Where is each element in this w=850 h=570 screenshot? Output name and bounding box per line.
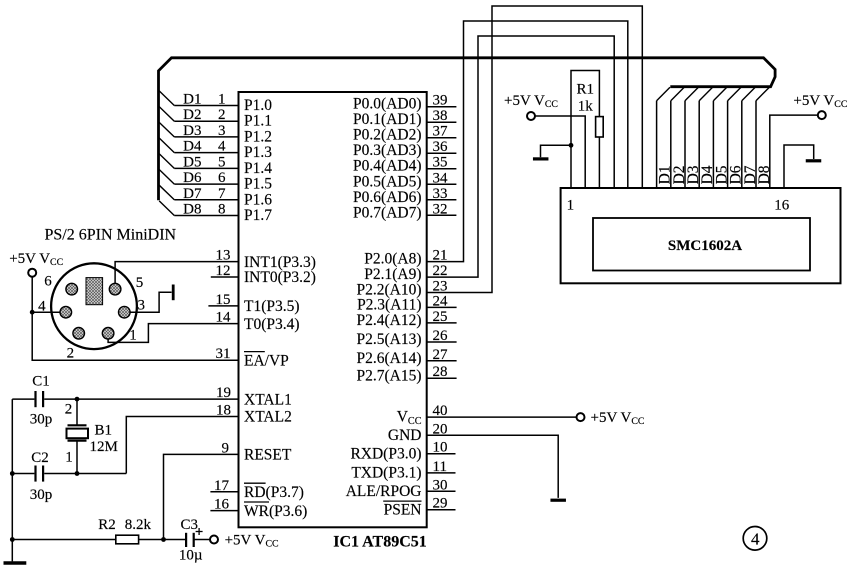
MiniDIN pin 3 contact xyxy=(119,306,131,318)
svg-text:C2: C2 xyxy=(31,450,49,466)
svg-text:P2.4(A12): P2.4(A12) xyxy=(356,312,421,329)
wire : LCD data line D6 xyxy=(727,101,729,188)
wire : bus tap diagonal for D2 xyxy=(159,107,174,122)
svg-text:11: 11 xyxy=(433,459,447,475)
svg-text:33: 33 xyxy=(433,186,448,202)
svg-text:C3: C3 xyxy=(181,517,199,533)
wire : IC pin 33 stub xyxy=(427,199,457,201)
shield terminal bar xyxy=(172,285,175,301)
svg-text:P2.3(A11): P2.3(A11) xyxy=(357,297,421,314)
svg-text:D8: D8 xyxy=(183,202,201,218)
crystal B1 symbol xyxy=(68,424,87,426)
wire : bus tap diagonal for D8 xyxy=(159,201,174,216)
svg-text:P0.0(AD0): P0.0(AD0) xyxy=(353,96,421,113)
wire : IC pin 37 stub xyxy=(427,137,457,139)
wire : LCD data line D2 xyxy=(670,101,672,188)
resistor R2 body xyxy=(116,535,139,544)
wire : bus tap diagonal for D5 xyxy=(159,154,174,169)
svg-text:C1: C1 xyxy=(32,374,50,390)
svg-text:P1.1: P1.1 xyxy=(244,113,272,130)
wire : bus tap diagonal for D1 xyxy=(159,91,174,106)
svg-text:P2.0(A8): P2.0(A8) xyxy=(364,251,421,268)
MiniDIN key slot rectangle xyxy=(86,278,103,305)
svg-text:TXD(P3.1): TXD(P3.1) xyxy=(351,465,421,482)
wire : XTAL2 jog to crystal bottom row xyxy=(126,417,238,474)
wire : IC pin 32 stub xyxy=(427,214,457,216)
resistor R1 body xyxy=(596,117,604,137)
wire : IC pin 38 stub xyxy=(427,121,457,123)
wire : net D6 to IC pin 6 xyxy=(174,183,238,185)
junction left rail / C2 row xyxy=(10,471,15,476)
wire : LCD pin 15 to +5V terminal xyxy=(770,115,818,188)
ground symbol at pin 20 xyxy=(550,499,566,502)
wire : +5V to LCD pin 2 xyxy=(535,116,586,188)
wire : net D1 to IC pin 1 xyxy=(174,105,238,107)
svg-text:XTAL2: XTAL2 xyxy=(244,409,292,426)
wire : tap to MiniDIN pin 4 xyxy=(32,311,60,313)
wire : net D7 to IC pin 7 xyxy=(174,199,238,201)
wire : RESET vertical to IC pin 9 xyxy=(164,454,239,539)
svg-text:30p: 30p xyxy=(30,412,53,428)
svg-text:1k: 1k xyxy=(578,99,594,115)
svg-text:5: 5 xyxy=(136,275,144,291)
LCD module SMC1602A outer box xyxy=(561,188,841,283)
svg-text:D3: D3 xyxy=(183,123,201,139)
svg-text:ALE/RPOG: ALE/RPOG xyxy=(346,483,422,500)
connector J1 : MiniDIN outer circle xyxy=(51,263,137,349)
wire : net D3 to IC pin 3 xyxy=(174,136,238,138)
wire : bus tap diagonal for D6 xyxy=(159,169,174,184)
ground symbol (LCD right) xyxy=(806,159,822,162)
wire : net D4 to IC pin 4 xyxy=(174,152,238,154)
svg-text:1: 1 xyxy=(65,450,73,466)
svg-text:P0.6(AD6): P0.6(AD6) xyxy=(353,189,421,206)
svg-text:RESET: RESET xyxy=(244,447,292,464)
wire : pin 40 to +5V terminal xyxy=(427,416,577,418)
wire : bus tap diagonal for LCD D8 xyxy=(756,87,769,101)
wire : R1 bottom to LCD pin 3 xyxy=(598,137,600,188)
wire : crystal bottom lead xyxy=(76,441,78,474)
power terminal +5V at pin 40 xyxy=(577,413,585,421)
svg-text:5: 5 xyxy=(218,154,226,170)
wire : bus tap diagonal for LCD D2 xyxy=(671,87,684,101)
junction at +5V rail / pin 4 xyxy=(30,310,35,315)
wire : left rail C1 row to IC pin 19 (XTAL1) xyxy=(12,398,34,400)
svg-text:30: 30 xyxy=(433,477,448,493)
wire : MiniDIN pin 3 (gnd) to shield stub xyxy=(124,292,171,312)
wire : bus tap diagonal for LCD D3 xyxy=(685,87,698,101)
wire : IC pin 24 stub xyxy=(427,306,457,308)
wire : +5V rail down to pin 31 row xyxy=(32,276,238,360)
LCD display window inner box xyxy=(593,218,810,271)
svg-text:D4: D4 xyxy=(183,139,202,155)
svg-text:P0.1(AD1): P0.1(AD1) xyxy=(353,111,421,128)
svg-text:P1.5: P1.5 xyxy=(244,176,272,193)
junction RESET / bottom row xyxy=(161,537,166,542)
wire : bus tap diagonal for D7 xyxy=(159,185,174,200)
ground stub bottom-left xyxy=(11,540,13,562)
wire : LCD data line D7 xyxy=(741,101,743,188)
svg-text:B1: B1 xyxy=(95,423,113,439)
svg-text:36: 36 xyxy=(433,139,449,155)
svg-text:R1: R1 xyxy=(576,82,594,98)
svg-text:P0.4(AD4): P0.4(AD4) xyxy=(353,158,421,175)
svg-text:P1.3: P1.3 xyxy=(244,144,272,161)
IC IC1 : AT89C51 microcontroller body xyxy=(239,92,427,527)
svg-text:P2.5(A13): P2.5(A13) xyxy=(356,331,421,348)
wire : pin 20 GND down to ground xyxy=(427,435,559,498)
wire : IC pin 17 stub xyxy=(210,491,238,493)
wire : LCD data line D5 xyxy=(712,101,714,188)
svg-text:4: 4 xyxy=(218,139,226,155)
wire : C2 row xyxy=(12,473,34,475)
wire : IC pin 11 stub xyxy=(427,472,456,474)
wire : C3 to +5V terminal xyxy=(194,539,211,541)
svg-text:3: 3 xyxy=(137,298,145,314)
power terminal +5V (LCD right) xyxy=(818,111,826,119)
ground symbol bottom-left xyxy=(4,561,27,565)
svg-text:6: 6 xyxy=(44,274,52,290)
svg-text:RXD(P3.0): RXD(P3.0) xyxy=(350,445,421,462)
wire : pin 22 P2.1 to LCD pin 4 (RS) xyxy=(427,36,615,277)
svg-text:T0(P3.4): T0(P3.4) xyxy=(244,316,300,333)
svg-text:35: 35 xyxy=(433,155,448,171)
svg-text:P1.6: P1.6 xyxy=(244,191,272,208)
svg-text:34: 34 xyxy=(433,170,449,186)
svg-text:D2: D2 xyxy=(183,107,201,123)
svg-text:P0.5(AD5): P0.5(AD5) xyxy=(353,173,421,190)
junction left rail / bottom row xyxy=(10,537,15,542)
capacitor C2 plates xyxy=(34,466,36,482)
junction crystal top / XTAL1 xyxy=(75,397,80,402)
svg-text:D7: D7 xyxy=(183,186,202,202)
wire : LCD data line D8 xyxy=(755,101,757,188)
wire : IC pin 25 stub xyxy=(427,322,457,324)
svg-text:WR(P3.6): WR(P3.6) xyxy=(244,503,307,520)
svg-text:12M: 12M xyxy=(90,439,118,455)
junction crystal bottom / C2 row xyxy=(75,471,80,476)
svg-text:P2.6(A14): P2.6(A14) xyxy=(356,350,421,367)
wire : MiniDIN pin 5 (clock) up to IC pin 13 xyxy=(115,262,238,290)
junction LCD pin1 / ground xyxy=(569,143,574,148)
svg-text:PS/2 6PIN MiniDIN: PS/2 6PIN MiniDIN xyxy=(45,226,177,243)
wire : thick data bus (keyboard D1-D8 to LCD) xyxy=(159,58,776,201)
svg-text:EA/VP: EA/VP xyxy=(244,352,289,369)
svg-text:1: 1 xyxy=(218,92,226,108)
svg-text:SMC1602A: SMC1602A xyxy=(668,238,742,254)
MiniDIN pin 6 contact xyxy=(66,283,78,295)
wire : ground branch (LCD left) xyxy=(541,145,572,157)
wire : bus tap diagonal for LCD D5 xyxy=(713,87,726,101)
svg-text:4: 4 xyxy=(751,530,760,549)
svg-text:1: 1 xyxy=(567,198,575,214)
svg-text:1: 1 xyxy=(129,328,137,344)
svg-text:16: 16 xyxy=(774,198,790,214)
svg-text:XTAL1: XTAL1 xyxy=(244,391,292,408)
wire : MiniDIN pin 1 (data) to IC pin 14 xyxy=(108,324,238,343)
svg-text:D6: D6 xyxy=(183,170,202,186)
svg-text:8: 8 xyxy=(218,202,226,218)
wire : LCD pin 16 to ground xyxy=(784,145,814,188)
wire : net D5 to IC pin 5 xyxy=(174,167,238,169)
svg-text:T1(P3.5): T1(P3.5) xyxy=(244,298,300,315)
wire : IC pin 12 stub xyxy=(211,276,239,278)
ground symbol (LCD left) xyxy=(533,157,549,160)
svg-text:P1.4: P1.4 xyxy=(244,160,272,177)
svg-text:RD(P3.7): RD(P3.7) xyxy=(244,484,304,501)
wire : pin 23 P2.2 to LCD pin 6 (E) xyxy=(427,6,643,293)
wire : left rail vertical (C1 to C2 to bottom) xyxy=(11,399,13,539)
capacitor C3 plates (electrolytic) xyxy=(185,533,187,547)
wire : bus tap diagonal for LCD D4 xyxy=(699,87,712,101)
wire : bus tap diagonal for LCD D7 xyxy=(742,87,755,101)
wire : IC pin 27 stub xyxy=(427,360,457,362)
svg-text:39: 39 xyxy=(433,93,448,109)
wire : crystal top lead xyxy=(76,399,78,425)
svg-text:8.2k: 8.2k xyxy=(125,517,152,533)
svg-text:32: 32 xyxy=(433,201,448,217)
svg-text:2: 2 xyxy=(67,346,75,362)
svg-text:INT0(P3.2): INT0(P3.2) xyxy=(244,269,316,286)
svg-text:D1: D1 xyxy=(183,92,201,108)
wire : LCD data line D4 xyxy=(698,101,700,188)
wire : IC pin 16 stub xyxy=(210,510,238,512)
svg-text:38: 38 xyxy=(433,108,448,124)
wire : IC pin 10 stub xyxy=(427,453,456,455)
page number circled 4 xyxy=(743,527,767,551)
power terminal +5V (reset) xyxy=(210,536,218,544)
wire : IC pin 29 stub xyxy=(427,509,456,511)
MiniDIN pin 1 contact xyxy=(102,328,114,340)
svg-text:P0.2(AD2): P0.2(AD2) xyxy=(353,127,421,144)
MiniDIN pin 2 contact xyxy=(73,328,85,340)
wire : net D2 to IC pin 2 xyxy=(174,120,238,122)
wire : IC pin 36 stub xyxy=(427,152,457,154)
svg-text:3: 3 xyxy=(218,123,226,139)
wire : LCD data line D3 xyxy=(684,101,686,188)
wire : IC pin 15 stub xyxy=(208,305,238,307)
wire : bus tap diagonal for LCD D6 xyxy=(728,87,741,101)
wire : IC pin 35 stub xyxy=(427,168,457,170)
svg-text:P2.7(A15): P2.7(A15) xyxy=(356,367,421,384)
svg-text:7: 7 xyxy=(218,186,226,202)
svg-text:P0.7(AD7): P0.7(AD7) xyxy=(353,204,421,221)
wire : bus tap diagonal for LCD D1 xyxy=(657,87,670,101)
svg-text:4: 4 xyxy=(38,299,46,315)
svg-text:PSEN: PSEN xyxy=(384,501,422,518)
capacitor C1 plates xyxy=(34,391,36,407)
wire : IC pin 28 stub xyxy=(427,377,457,379)
svg-text:GND: GND xyxy=(388,427,422,444)
wire : net D8 to IC pin 8 xyxy=(174,215,238,217)
power terminal +5V (PS/2) xyxy=(28,269,36,277)
wire : IC pin 26 stub xyxy=(427,341,457,343)
svg-text:10µ: 10µ xyxy=(179,548,203,564)
svg-text:30p: 30p xyxy=(30,487,53,503)
MiniDIN pin 4 contact xyxy=(60,306,72,318)
wire : bus tap diagonal for D4 xyxy=(159,138,174,153)
wire : IC pin 34 stub xyxy=(427,183,457,185)
wire : IC pin 30 stub xyxy=(427,490,456,492)
wire : IC pin 39 stub xyxy=(427,106,457,108)
svg-text:P1.7: P1.7 xyxy=(244,207,272,224)
MiniDIN pin 5 contact xyxy=(109,283,121,295)
wire : R2 to C3 xyxy=(139,539,185,541)
svg-text:37: 37 xyxy=(433,124,449,140)
svg-text:R2: R2 xyxy=(98,517,116,533)
svg-text:6: 6 xyxy=(218,170,226,186)
svg-text:IC1 AT89C51: IC1 AT89C51 xyxy=(333,534,427,551)
wire : bottom rail row xyxy=(12,539,116,541)
svg-text:D5: D5 xyxy=(183,154,201,170)
svg-text:P0.3(AD3): P0.3(AD3) xyxy=(353,142,421,159)
svg-text:2: 2 xyxy=(65,402,73,418)
svg-text:P1.0: P1.0 xyxy=(244,97,272,114)
wire : LCD pin 1 up and over to R1 top xyxy=(571,71,599,189)
svg-text:10: 10 xyxy=(433,440,448,456)
svg-text:29: 29 xyxy=(433,496,448,512)
svg-text:2: 2 xyxy=(218,107,226,123)
C3 polarity plus sign xyxy=(196,531,203,533)
wire : bus tap diagonal for D3 xyxy=(159,122,174,137)
wire : pin 21 P2.0 to LCD pin 5 (RW) xyxy=(427,21,628,262)
svg-text:P1.2: P1.2 xyxy=(244,128,272,145)
wire : LCD data line D1 xyxy=(656,101,658,188)
